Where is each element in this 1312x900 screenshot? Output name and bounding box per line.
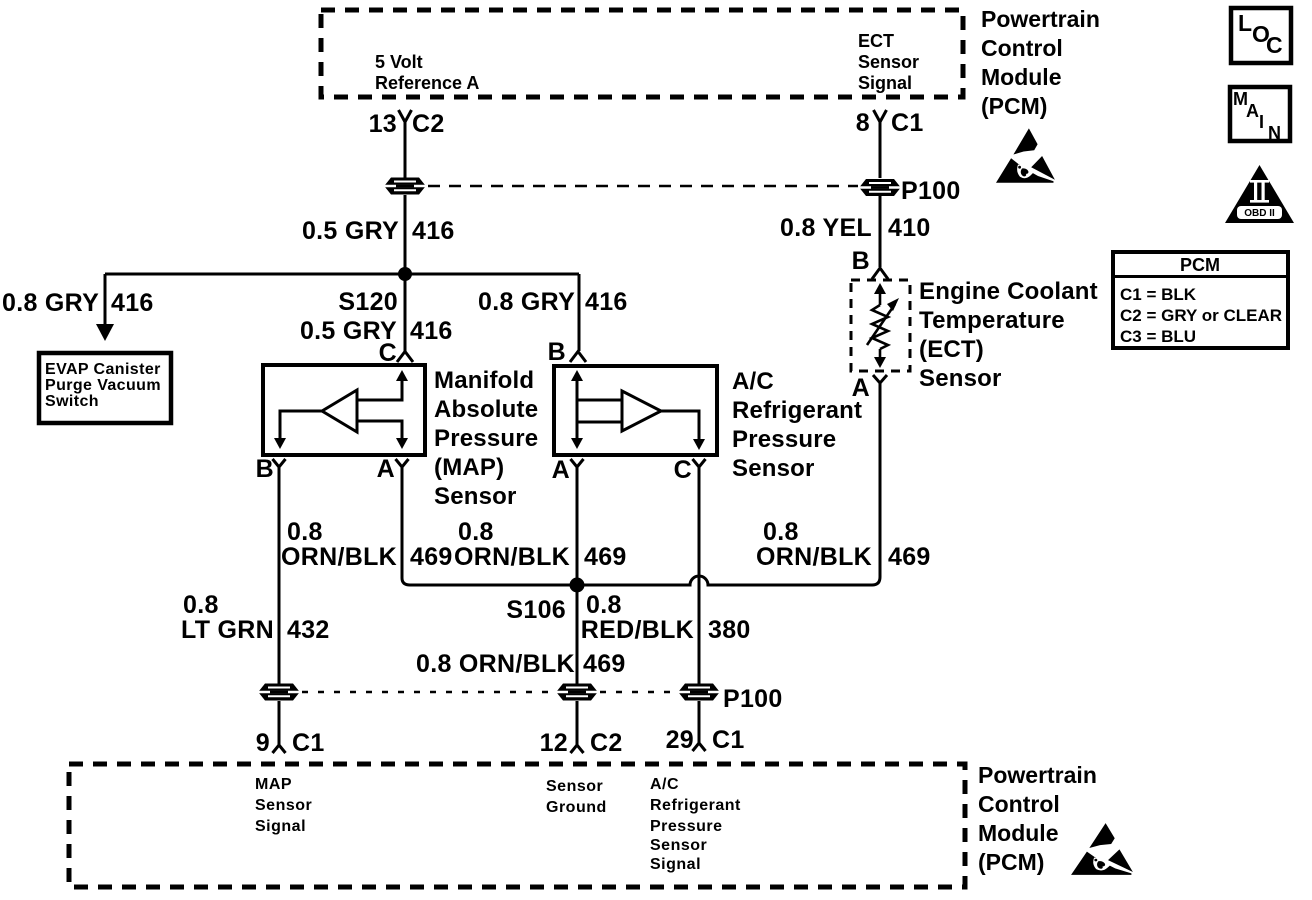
svg-text:9: 9 <box>256 729 270 757</box>
svg-text:Signal: Signal <box>650 856 701 873</box>
svg-text:0.5 GRY: 0.5 GRY <box>302 217 399 245</box>
svg-text:12: 12 <box>540 729 568 757</box>
svg-text:I: I <box>1259 112 1264 132</box>
svg-text:A/C: A/C <box>732 368 774 395</box>
svg-text:Absolute: Absolute <box>434 396 538 423</box>
svg-text:C1 = BLK: C1 = BLK <box>1120 285 1197 304</box>
svg-text:ORN/BLK: ORN/BLK <box>756 543 872 571</box>
svg-text:(PCM): (PCM) <box>978 849 1044 875</box>
svg-text:8: 8 <box>856 109 870 137</box>
svg-text:C: C <box>674 456 692 484</box>
svg-text:Control: Control <box>978 791 1060 817</box>
svg-text:416: 416 <box>412 217 455 245</box>
svg-text:Purge Vacuum: Purge Vacuum <box>45 377 161 394</box>
svg-text:A: A <box>552 456 570 484</box>
svg-text:Reference A: Reference A <box>375 73 479 93</box>
svg-text:380: 380 <box>708 616 751 644</box>
svg-text:0.8: 0.8 <box>763 518 799 546</box>
svg-text:Signal: Signal <box>858 73 912 93</box>
svg-text:C1: C1 <box>712 726 745 754</box>
svg-text:Pressure: Pressure <box>434 425 538 452</box>
svg-text:416: 416 <box>410 317 453 345</box>
svg-text:Manifold: Manifold <box>434 367 534 394</box>
svg-text:S106: S106 <box>506 596 566 624</box>
svg-text:Module: Module <box>978 820 1059 846</box>
svg-text:N: N <box>1268 123 1281 143</box>
svg-text:0.8 GRY: 0.8 GRY <box>478 288 575 316</box>
svg-text:ORN/BLK: ORN/BLK <box>281 543 397 571</box>
svg-text:Engine Coolant: Engine Coolant <box>919 278 1098 305</box>
svg-text:C2: C2 <box>590 729 623 757</box>
svg-text:416: 416 <box>111 289 154 317</box>
svg-text:Sensor: Sensor <box>650 837 707 854</box>
svg-text:Pressure: Pressure <box>650 818 723 835</box>
svg-text:0.8 ORN/BLK: 0.8 ORN/BLK <box>416 650 575 678</box>
svg-text:Ground: Ground <box>546 799 607 816</box>
svg-text:469: 469 <box>584 543 627 571</box>
svg-text:A: A <box>1246 101 1259 121</box>
svg-text:LT GRN: LT GRN <box>181 616 274 644</box>
svg-text:Refrigerant: Refrigerant <box>732 397 862 424</box>
svg-text:Sensor: Sensor <box>434 483 517 510</box>
svg-text:Pressure: Pressure <box>732 426 836 453</box>
svg-text:P100: P100 <box>901 177 961 205</box>
svg-text:ECT: ECT <box>858 31 894 51</box>
svg-text:Signal: Signal <box>255 818 306 835</box>
svg-text:L: L <box>1238 10 1252 36</box>
svg-text:0.8 GRY: 0.8 GRY <box>2 289 99 317</box>
svg-text:Sensor: Sensor <box>546 778 603 795</box>
svg-text:RED/BLK: RED/BLK <box>581 616 694 644</box>
svg-text:MAP: MAP <box>255 776 292 793</box>
svg-text:OBD II: OBD II <box>1244 208 1275 219</box>
svg-text:5 Volt: 5 Volt <box>375 52 423 72</box>
svg-text:29: 29 <box>666 726 694 754</box>
svg-text:(PCM): (PCM) <box>981 93 1047 119</box>
svg-text:(ECT): (ECT) <box>919 336 984 363</box>
svg-text:469: 469 <box>410 543 453 571</box>
svg-text:S120: S120 <box>338 288 398 316</box>
svg-text:A: A <box>377 455 395 483</box>
svg-text:C3 = BLU: C3 = BLU <box>1120 327 1196 346</box>
svg-text:0.8: 0.8 <box>458 518 494 546</box>
svg-text:C1: C1 <box>292 729 325 757</box>
svg-text:Switch: Switch <box>45 393 99 410</box>
svg-text:P100: P100 <box>723 685 783 713</box>
svg-text:0.8: 0.8 <box>586 591 622 619</box>
svg-text:410: 410 <box>888 214 931 242</box>
svg-text:ORN/BLK: ORN/BLK <box>454 543 570 571</box>
svg-text:B: B <box>256 455 274 483</box>
svg-text:PCM: PCM <box>1180 255 1220 275</box>
svg-text:Sensor: Sensor <box>858 52 919 72</box>
svg-text:Sensor: Sensor <box>732 455 815 482</box>
svg-text:C: C <box>379 339 397 367</box>
svg-text:Module: Module <box>981 64 1062 90</box>
svg-text:EVAP Canister: EVAP Canister <box>45 361 161 378</box>
svg-text:0.8 YEL: 0.8 YEL <box>780 214 872 242</box>
svg-text:432: 432 <box>287 616 330 644</box>
svg-text:C2: C2 <box>412 110 445 138</box>
svg-text:Powertrain: Powertrain <box>981 6 1100 32</box>
svg-text:416: 416 <box>585 288 628 316</box>
svg-text:Temperature: Temperature <box>919 307 1065 334</box>
svg-text:A/C: A/C <box>650 776 679 793</box>
svg-text:C: C <box>1266 32 1283 58</box>
svg-text:Control: Control <box>981 35 1063 61</box>
svg-text:C1: C1 <box>891 109 924 137</box>
svg-text:Sensor: Sensor <box>255 797 312 814</box>
svg-text:B: B <box>852 247 870 275</box>
svg-text:(MAP): (MAP) <box>434 454 504 481</box>
svg-text:0.8: 0.8 <box>287 518 323 546</box>
svg-text:Sensor: Sensor <box>919 365 1002 392</box>
svg-text:0.8: 0.8 <box>183 591 219 619</box>
svg-text:Refrigerant: Refrigerant <box>650 797 741 814</box>
svg-text:B: B <box>548 338 566 366</box>
svg-text:469: 469 <box>888 543 931 571</box>
svg-text:C2 = GRY or CLEAR: C2 = GRY or CLEAR <box>1120 306 1282 325</box>
svg-text:Powertrain: Powertrain <box>978 762 1097 788</box>
svg-text:13: 13 <box>369 110 397 138</box>
svg-text:469: 469 <box>583 650 626 678</box>
